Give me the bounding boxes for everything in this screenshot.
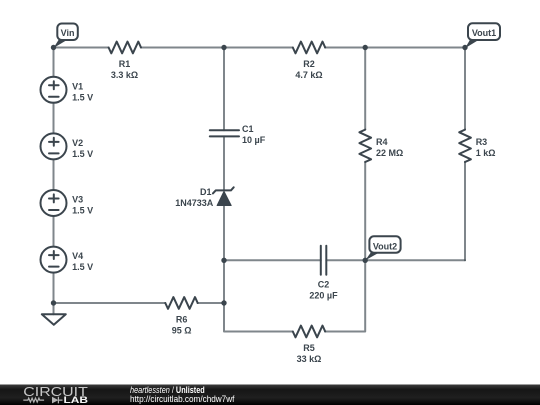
svg-text:R5: R5	[303, 343, 315, 353]
svg-text:R6: R6	[176, 315, 188, 325]
svg-text:V1: V1	[72, 81, 83, 91]
svg-text:V3: V3	[72, 195, 83, 205]
svg-text:10 µF: 10 µF	[242, 135, 266, 145]
svg-text:3.3 kΩ: 3.3 kΩ	[111, 70, 138, 80]
svg-text:Vout2: Vout2	[373, 242, 397, 252]
svg-text:C2: C2	[318, 280, 330, 290]
svg-text:1.5 V: 1.5 V	[72, 92, 93, 102]
svg-text:V2: V2	[72, 138, 83, 148]
svg-text:95 Ω: 95 Ω	[172, 326, 192, 336]
svg-text:1 kΩ: 1 kΩ	[476, 148, 496, 158]
svg-text:LAB: LAB	[64, 395, 89, 405]
svg-text:R4: R4	[376, 137, 388, 147]
svg-text:22 MΩ: 22 MΩ	[376, 148, 403, 158]
svg-text:1.5 V: 1.5 V	[72, 149, 93, 159]
svg-text:R2: R2	[303, 59, 315, 69]
svg-text:V4: V4	[72, 251, 83, 261]
svg-text:Vin: Vin	[61, 28, 75, 38]
svg-text:C1: C1	[242, 124, 254, 134]
svg-text:http://circuitlab.com/chdw7wf: http://circuitlab.com/chdw7wf	[130, 393, 235, 404]
svg-text:1.5 V: 1.5 V	[72, 262, 93, 272]
svg-text:R3: R3	[476, 137, 488, 147]
svg-text:Vout1: Vout1	[472, 28, 496, 38]
svg-text:R1: R1	[119, 59, 131, 69]
svg-text:1.5 V: 1.5 V	[72, 206, 93, 216]
svg-text:220 µF: 220 µF	[309, 290, 338, 300]
svg-text:4.7 kΩ: 4.7 kΩ	[295, 70, 322, 80]
svg-text:1N4733A: 1N4733A	[175, 198, 214, 208]
svg-text:33 kΩ: 33 kΩ	[297, 354, 322, 364]
svg-text:D1: D1	[200, 187, 212, 197]
